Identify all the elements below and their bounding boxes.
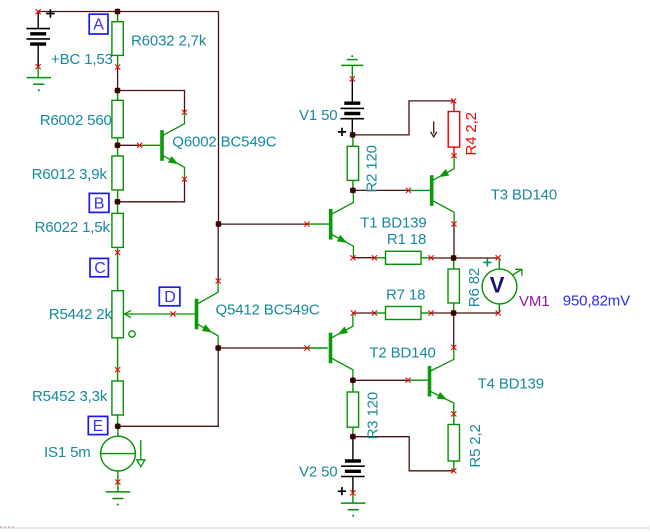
resistor R7 left pin — [375, 312, 386, 314]
wire R2 bottom junction to T3 base — [353, 189, 409, 191]
ground below battery BC stub — [37, 67, 39, 78]
pin x-mark 39 — [350, 378, 355, 383]
plus sign voltmeter VM1 — [483, 258, 491, 266]
pin x-mark 38 — [305, 345, 310, 350]
resistor R3 top pin — [352, 380, 354, 392]
pin x-mark 32 — [351, 310, 356, 315]
pin x-mark 16 — [216, 221, 221, 226]
svg-text:V: V — [490, 272, 505, 297]
resistor R4 top pin — [453, 101, 455, 112]
resistor R5 — [448, 425, 459, 462]
pin x-mark 1 — [36, 9, 41, 14]
pin x-mark 44 — [350, 490, 355, 495]
pin x-mark 37 — [451, 345, 456, 350]
pin x-mark 4 — [115, 88, 120, 93]
potentiometer R5442 top pin — [117, 253, 119, 291]
junction dot m — [451, 310, 457, 316]
pin x-mark 7 — [115, 199, 120, 204]
node D label box — [159, 287, 180, 306]
wire T1 emitter to R1 left — [353, 257, 375, 259]
resistor R6022 bottom pin — [117, 247, 119, 252]
wire node to T1 base — [219, 223, 308, 225]
wire V1 plus to R4 top — [353, 101, 454, 135]
svg-text:R6012 3,9k: R6012 3,9k — [32, 166, 108, 183]
pin x-mark 23 — [406, 188, 411, 193]
junction dot j — [350, 377, 356, 383]
junction dot f — [216, 221, 222, 227]
resistor R6 — [448, 269, 459, 303]
pin x-mark 3 — [115, 64, 120, 69]
pin x-mark 28 — [350, 255, 355, 260]
resistor R6032 bottom pin — [117, 55, 119, 67]
node B label box — [89, 193, 109, 212]
battery V1 bottom wire — [351, 119, 353, 135]
pin x-mark 17 — [216, 345, 221, 350]
junction dot a — [115, 9, 121, 15]
pin x-mark 14 — [216, 278, 221, 283]
ground above V1 inverted — [341, 64, 363, 66]
wire R1 right to output node — [431, 257, 454, 259]
plus sign battery V1 — [338, 128, 346, 136]
junction dot d — [115, 199, 121, 205]
pin x-mark 24 — [451, 98, 456, 103]
resistor R5452 — [112, 381, 123, 415]
pin x-mark 22 — [350, 188, 355, 193]
wire T2 collector junction to T4 base — [353, 379, 408, 381]
transistor T4 — [428, 366, 432, 397]
pin x-mark 13 — [182, 177, 187, 182]
svg-text:R2 120: R2 120 — [364, 145, 381, 192]
current source IS1 circle — [101, 436, 136, 471]
transistor Q6002 base pin — [140, 144, 161, 146]
svg-text:T4 BD139: T4 BD139 — [478, 375, 544, 392]
potentiometer R5442 body — [112, 291, 124, 338]
pin x-mark 27 — [372, 255, 377, 260]
resistor R6002 bottom pin — [117, 138, 119, 146]
resistor R6012 — [112, 156, 123, 190]
svg-text:IS1 5m: IS1 5m — [44, 444, 91, 461]
resistor R5452 bottom pin — [117, 415, 119, 426]
junction dot l — [451, 255, 457, 261]
resistor R1 left pin — [375, 257, 386, 259]
svg-text:A: A — [93, 17, 104, 34]
pin x-mark 18 — [115, 424, 120, 429]
svg-text:T1 BD139: T1 BD139 — [360, 215, 426, 232]
junction dot i — [350, 187, 356, 193]
wire lower output node to T4 collector — [453, 313, 455, 347]
resistor R6022 top pin — [117, 202, 119, 214]
battery V1 plates — [344, 101, 360, 104]
resistor R3 — [347, 392, 358, 427]
pin x-mark 2 — [36, 64, 41, 69]
wire R7 right to lower output node — [431, 312, 454, 314]
resistor R6022 — [112, 213, 123, 247]
svg-text:R3 120: R3 120 — [365, 392, 382, 439]
resistor R6002 — [112, 100, 123, 138]
pin x-mark 5 — [137, 143, 142, 148]
ground below V2 — [341, 502, 366, 504]
wire R3 bottom junction to R5 bottom — [353, 437, 454, 471]
pin x-mark 15 — [304, 222, 309, 227]
svg-text:C: C — [94, 260, 105, 277]
battery V2 top wire — [352, 437, 354, 460]
wire R6032 bottom to R6002 top junction — [117, 67, 119, 91]
svg-text:R6 82: R6 82 — [466, 268, 483, 307]
pin x-mark 29 — [428, 255, 433, 260]
transistor T1 base pin — [307, 223, 329, 225]
junction dot g — [215, 345, 221, 351]
svg-text:E: E — [93, 418, 104, 435]
svg-text:R1 18: R1 18 — [387, 231, 426, 248]
svg-text:+BC 1,53: +BC 1,53 — [51, 51, 113, 68]
transistor T4 base pin — [408, 379, 428, 381]
pin x-mark 41 — [451, 411, 456, 416]
wire output node to voltmeter plus — [454, 257, 499, 259]
plus sign battery V2 — [338, 487, 346, 495]
potentiometer R5442 bottom pin — [117, 338, 119, 370]
resistor R1 — [386, 251, 422, 264]
potentiometer R5442 terminal circle — [129, 331, 135, 337]
ground below IS1 — [106, 491, 131, 493]
pin x-mark 43 — [350, 434, 355, 439]
svg-text:VM1: VM1 — [519, 293, 549, 310]
wire Q6002 emitter to node B — [118, 179, 185, 202]
wire node E to Q5412 emitter junction — [118, 348, 218, 426]
pin x-mark 42 — [451, 468, 456, 473]
svg-text:D: D — [164, 289, 175, 306]
junction dot h — [350, 132, 356, 138]
plus sign battery BC — [46, 9, 55, 18]
svg-text:Q5412 BC549C: Q5412 BC549C — [216, 301, 320, 318]
battery V2 bottom wire — [352, 477, 354, 493]
transistor T2 base pin — [307, 347, 328, 349]
wire Q6002 collector net — [118, 91, 185, 113]
resistor R4 bottom pin — [453, 147, 455, 156]
svg-text:R6022 1,5k: R6022 1,5k — [35, 219, 111, 236]
pin x-mark 36 — [496, 310, 501, 315]
pin x-mark 25 — [452, 153, 457, 158]
resistor R6 top pin — [453, 258, 455, 269]
svg-text:R5452 3,3k: R5452 3,3k — [32, 388, 108, 405]
battery BC plates — [26, 28, 50, 30]
current direction arrow at R4 — [431, 122, 437, 137]
potentiometer R5442 wiper arrow — [125, 310, 196, 317]
junction dot c — [115, 142, 121, 148]
pin x-mark 35 — [451, 310, 456, 315]
current source IS1 top pin — [117, 426, 119, 436]
wire right vertical rail from top corner down to Q-stage node — [218, 12, 220, 225]
svg-text:R6032 2,7k: R6032 2,7k — [131, 32, 207, 49]
current source IS1 bottom pin — [117, 471, 119, 492]
battery V2 plates — [345, 459, 361, 462]
pin x-mark 30 — [451, 255, 456, 260]
resistor R6012 top pin — [117, 145, 119, 156]
resistor R1 right pin — [421, 257, 431, 259]
pin x-mark 34 — [428, 310, 433, 315]
transistor Q5412 — [195, 299, 199, 330]
pin x-mark 40 — [406, 378, 411, 383]
pin x-mark 19 — [115, 9, 120, 14]
resistor R3 bottom pin — [352, 427, 354, 436]
wire T2 emitter to R7 left — [353, 312, 374, 314]
resistor R5452 top pin — [117, 370, 119, 381]
resistor R2 bottom pin — [352, 180, 354, 190]
voltmeter VM1 circle — [482, 269, 517, 304]
junction dot k — [350, 434, 356, 440]
wire Q5412 emitter junction to T2 base — [218, 347, 307, 349]
svg-text:R4 2,2: R4 2,2 — [463, 112, 480, 155]
transistor T2 — [329, 333, 333, 364]
node C label box — [90, 258, 108, 276]
pin x-mark 12 — [182, 110, 187, 115]
pin x-mark 21 — [350, 132, 355, 137]
pin x-mark 10 — [115, 367, 120, 372]
battery V1 top wire — [351, 79, 353, 102]
wire Q6002 base net — [118, 144, 140, 146]
resistor R2 — [347, 146, 358, 180]
resistor R7 — [386, 307, 422, 320]
ground below battery BC — [27, 77, 52, 79]
wire T3 collector to output node — [453, 224, 455, 258]
pin x-mark 6 — [115, 143, 120, 148]
transistor T1 — [329, 209, 333, 240]
resistor R4 — [448, 112, 460, 148]
transistor T3 base pin — [409, 189, 430, 191]
ground below V2 stub — [352, 493, 354, 503]
voltmeter VM1 arrow — [512, 269, 522, 276]
resistor R6032 — [112, 22, 123, 56]
svg-text:R7 18: R7 18 — [386, 286, 425, 303]
resistor R7 right pin — [421, 312, 431, 314]
battery BC wires — [37, 12, 39, 29]
svg-text:V2 50: V2 50 — [299, 463, 337, 480]
svg-text:T2 BD140: T2 BD140 — [369, 344, 435, 361]
svg-text:T3 BD140: T3 BD140 — [491, 186, 557, 203]
pin x-mark 20 — [350, 76, 355, 81]
junction dot b — [115, 88, 121, 94]
voltmeter VM1 plus pin — [498, 258, 500, 269]
pin x-mark 31 — [496, 255, 501, 260]
voltmeter VM1 minus pin — [498, 304, 500, 313]
transistor Q6002 — [160, 130, 164, 161]
resistor R5 bottom pin — [453, 461, 455, 471]
resistor R5 top pin — [453, 414, 455, 425]
page boundary dotted line — [0, 527, 650, 529]
node E label box — [88, 416, 107, 434]
svg-text:Q6002 BC549C: Q6002 BC549C — [172, 134, 276, 151]
svg-text:R6002 560: R6002 560 — [40, 112, 112, 129]
junction dot e — [115, 423, 121, 429]
pin x-mark 11 — [115, 479, 120, 484]
pin x-mark 8 — [115, 250, 120, 255]
node A label box — [89, 14, 108, 34]
transistor T3 — [430, 175, 434, 206]
wire top rail from battery BC to node A to right corner — [38, 11, 218, 13]
resistor R6002 top pin — [117, 91, 119, 101]
resistor R6032 top pin — [117, 12, 119, 22]
resistor R2 top pin — [352, 135, 354, 146]
svg-text:R5442 2k: R5442 2k — [49, 306, 113, 323]
wire Q5412 collector to rail junction — [217, 224, 219, 281]
svg-text:V1 50: V1 50 — [299, 107, 337, 124]
svg-text:B: B — [94, 195, 105, 212]
svg-text:950,82mV: 950,82mV — [563, 293, 630, 310]
pin x-mark 33 — [372, 310, 377, 315]
resistor R6 bottom pin — [453, 303, 455, 313]
pin x-mark 9 — [170, 311, 175, 316]
ground to V1 stub — [351, 65, 353, 79]
current source IS1 direction arrow — [137, 440, 145, 467]
wire lower output node to voltmeter minus — [454, 312, 499, 314]
svg-text:R5 2,2: R5 2,2 — [467, 424, 484, 467]
pin x-mark 26 — [451, 221, 456, 226]
resistor R6012 bottom pin — [117, 190, 119, 202]
